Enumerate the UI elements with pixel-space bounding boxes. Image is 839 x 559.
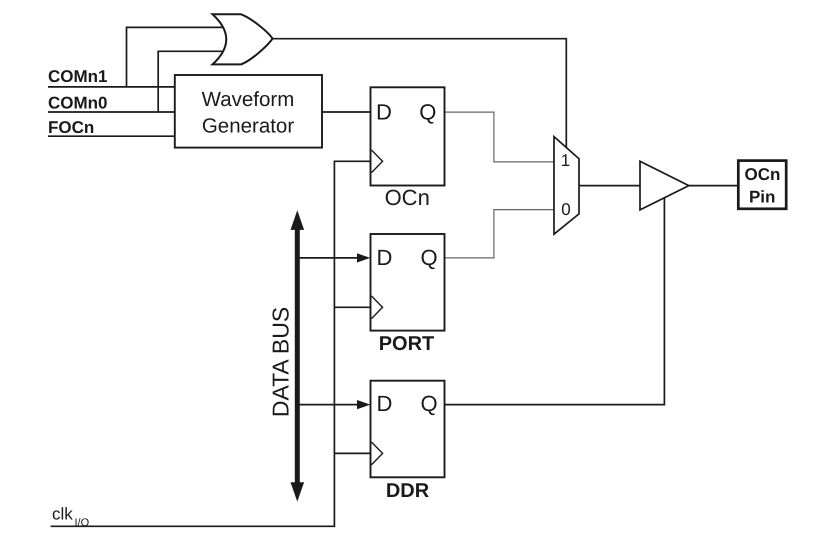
svg-text:Q: Q	[420, 245, 437, 270]
svg-text:D: D	[377, 391, 393, 416]
svg-text:clk: clk	[52, 505, 73, 524]
svg-text:DATA BUS: DATA BUS	[267, 307, 293, 417]
svg-text:Q: Q	[420, 391, 437, 416]
svg-text:FOCn: FOCn	[48, 118, 94, 137]
svg-text:D: D	[376, 99, 392, 124]
svg-text:COMn0: COMn0	[48, 93, 108, 112]
svg-text:D: D	[377, 245, 393, 270]
svg-text:OCn: OCn	[745, 165, 781, 184]
svg-text:1: 1	[561, 151, 570, 170]
svg-text:PORT: PORT	[379, 333, 435, 355]
svg-text:Q: Q	[419, 99, 436, 124]
svg-text:DDR: DDR	[386, 480, 430, 502]
svg-text:Generator: Generator	[202, 115, 294, 138]
svg-text:Pin: Pin	[749, 187, 775, 206]
svg-text:I/O: I/O	[75, 517, 90, 529]
svg-text:0: 0	[561, 200, 570, 219]
svg-text:Waveform: Waveform	[202, 88, 295, 111]
svg-text:COMn1: COMn1	[48, 67, 108, 86]
svg-text:OCn: OCn	[385, 185, 430, 210]
